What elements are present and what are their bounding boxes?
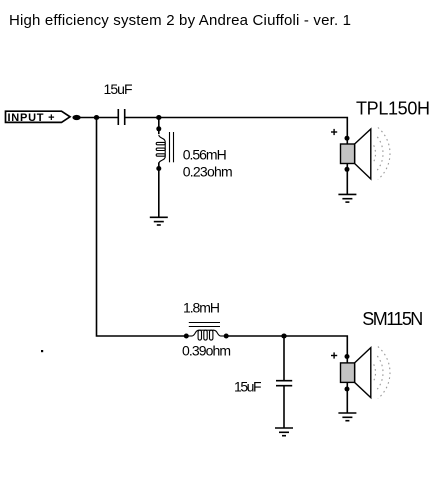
svg-text:15uF: 15uF: [104, 81, 133, 97]
svg-text:TPL150H: TPL150H: [356, 99, 430, 119]
svg-text:1.8mH: 1.8mH: [183, 300, 220, 316]
svg-text:0.39ohm: 0.39ohm: [182, 342, 231, 358]
svg-text:INPUT +: INPUT +: [8, 112, 55, 124]
svg-text:0.56mH: 0.56mH: [183, 147, 227, 163]
svg-text:High efficiency system 2 by An: High efficiency system 2 by Andrea Ciuff…: [9, 12, 351, 29]
svg-text:0.23ohm: 0.23ohm: [183, 164, 233, 180]
svg-text:SM115N: SM115N: [362, 309, 423, 329]
svg-text:15uF: 15uF: [234, 379, 262, 395]
